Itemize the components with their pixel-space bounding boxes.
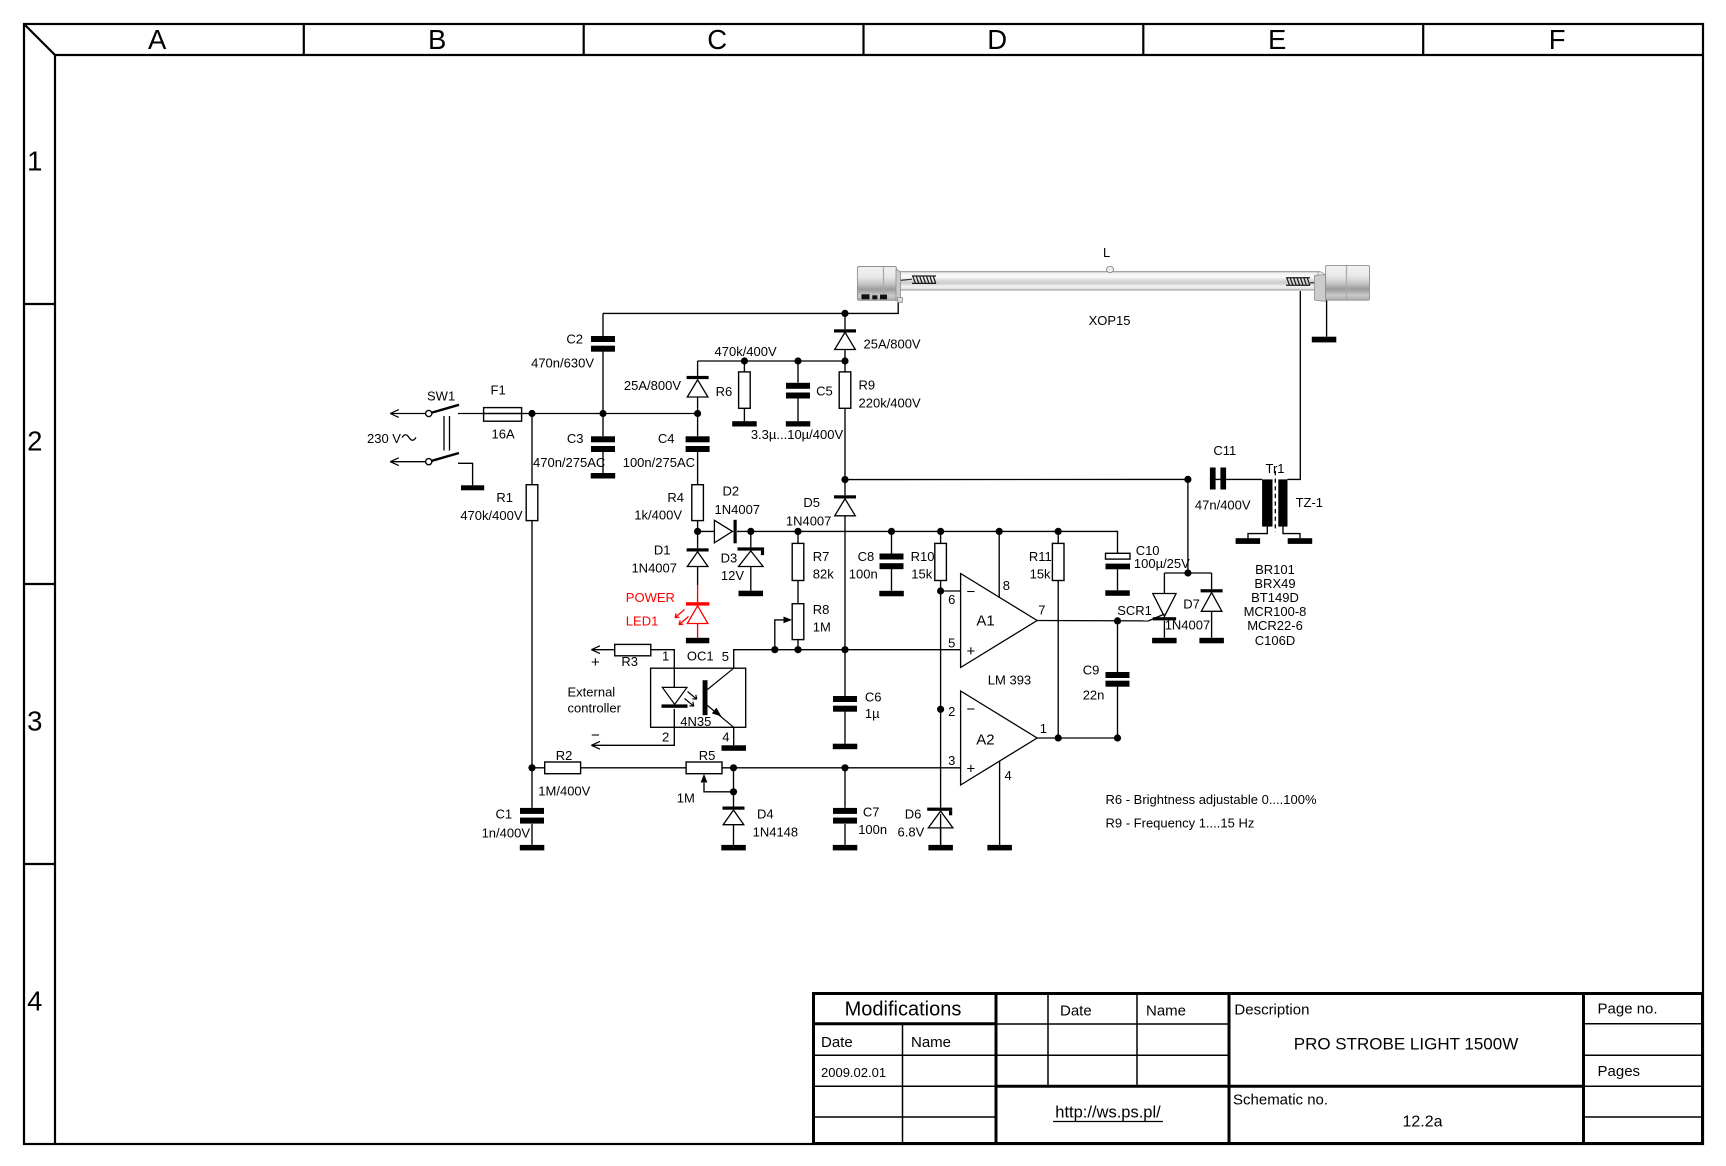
- wire D3 column: [750, 531, 752, 590]
- ground below D4: [721, 845, 746, 851]
- capacitor C5: [786, 383, 810, 399]
- svg-text:Schematic no.: Schematic no.: [1233, 1092, 1328, 1109]
- resistor R11: [1052, 543, 1064, 580]
- node pin1 C9: [1114, 734, 1121, 741]
- resistor R2: [545, 762, 581, 774]
- ground below D6: [928, 845, 953, 851]
- svg-text:R9: R9: [859, 378, 876, 393]
- diode D1: [687, 548, 709, 566]
- node C8 top: [888, 528, 895, 535]
- svg-text:220k/400V: 220k/400V: [859, 396, 921, 411]
- svg-text:LED1: LED1: [626, 614, 659, 629]
- wire R11 column: [1057, 531, 1059, 738]
- node R2 left: [528, 764, 535, 771]
- svg-text:15k: 15k: [1030, 567, 1051, 582]
- svg-text:R8: R8: [813, 602, 830, 617]
- node C11 tee: [1184, 476, 1191, 483]
- svg-text:C6: C6: [865, 690, 882, 705]
- node 470k bus C5: [794, 357, 801, 364]
- ground below C3: [591, 473, 616, 479]
- wire 470k bus: [698, 360, 845, 362]
- capacitor C6: [833, 696, 857, 712]
- svg-text:B: B: [428, 24, 446, 55]
- ground below R6: [732, 421, 757, 426]
- svg-text:−: −: [591, 727, 600, 744]
- ground below D7: [1199, 638, 1224, 644]
- svg-text:1N4148: 1N4148: [753, 825, 799, 840]
- svg-text:4: 4: [27, 986, 42, 1017]
- svg-text:12.2a: 12.2a: [1402, 1114, 1442, 1131]
- svg-text:1N4007: 1N4007: [715, 502, 761, 517]
- wire R6: [743, 361, 745, 421]
- svg-text:C9: C9: [1083, 663, 1100, 678]
- svg-text:BRX49: BRX49: [1254, 576, 1295, 591]
- svg-text:+: +: [967, 761, 976, 778]
- wire R7 R8 column: [797, 531, 799, 649]
- svg-text:D1: D1: [654, 543, 671, 558]
- ground below A2 pin4: [987, 845, 1012, 851]
- svg-text:470n/630V: 470n/630V: [531, 355, 594, 370]
- svg-text:470n/275AC: 470n/275AC: [533, 455, 605, 470]
- wire A1 pin6: [941, 590, 961, 592]
- svg-text:3.3µ...10µ/400V: 3.3µ...10µ/400V: [751, 427, 844, 442]
- svg-text:Tr1: Tr1: [1266, 461, 1285, 476]
- wire OC1 pin4: [733, 727, 735, 745]
- svg-text:+: +: [591, 654, 600, 671]
- node pin8: [996, 528, 1003, 535]
- resistor R10: [935, 543, 947, 580]
- svg-text:D5: D5: [803, 495, 820, 510]
- svg-text:100n/275AC: 100n/275AC: [623, 455, 695, 470]
- wire R8 wiper: [775, 620, 784, 650]
- node R9 bottom D5: [841, 476, 848, 483]
- wire lamp right to Tr1 secondary: [1288, 291, 1301, 479]
- svg-text:3: 3: [27, 706, 42, 737]
- svg-text:R1: R1: [496, 490, 513, 505]
- svg-text:BR101: BR101: [1255, 562, 1295, 577]
- ground below Tr1 primary: [1236, 538, 1261, 544]
- wire D2 anode: [698, 530, 714, 532]
- svg-text:7: 7: [1038, 603, 1045, 618]
- svg-text:1M: 1M: [677, 791, 695, 806]
- svg-text:4: 4: [1005, 768, 1012, 783]
- wire A1 pin7: [1037, 620, 1148, 622]
- label SCR types list: [1244, 562, 1307, 648]
- wire SCR1 / D7 tee: [1164, 573, 1211, 638]
- svg-text:Date: Date: [821, 1034, 853, 1051]
- svg-text:R9 - Frequency 1....15 Hz: R9 - Frequency 1....15 Hz: [1106, 816, 1255, 831]
- svg-text:R10: R10: [911, 549, 935, 564]
- svg-text:82k: 82k: [813, 567, 834, 582]
- LED LED1: [675, 602, 709, 625]
- capacitor C11: [1210, 468, 1226, 490]
- svg-text:R7: R7: [813, 549, 830, 564]
- node lamp left: [841, 310, 848, 317]
- svg-text:470k/400V: 470k/400V: [460, 508, 522, 523]
- resistor R7: [792, 543, 804, 580]
- ground below LED1: [686, 638, 709, 644]
- zener D3: [738, 547, 765, 566]
- wire SW1 pole2 input: [390, 461, 425, 463]
- svg-text:5: 5: [948, 636, 955, 651]
- svg-text:8: 8: [1003, 578, 1010, 593]
- ground below C7: [833, 845, 858, 851]
- svg-text:SW1: SW1: [427, 389, 455, 404]
- node D2-D3: [747, 528, 754, 535]
- svg-text:100µ/25V: 100µ/25V: [1134, 556, 1190, 571]
- svg-text:C4: C4: [658, 431, 675, 446]
- node R10 top: [937, 528, 944, 535]
- wire R1 column: [531, 414, 533, 845]
- wire comparator supply bus: [737, 530, 1058, 532]
- lamp L tube: [857, 265, 1369, 302]
- capacitor C2: [591, 336, 615, 352]
- node R8 wiper: [771, 646, 778, 653]
- svg-text:Page no.: Page no.: [1598, 1001, 1658, 1018]
- capacitor C4: [686, 436, 710, 452]
- OC1 emission arrows: [688, 692, 697, 700]
- ground below lamp right cap: [1312, 337, 1337, 343]
- svg-text:D4: D4: [757, 807, 774, 822]
- svg-text:C7: C7: [863, 805, 880, 820]
- node SCR D7 tee: [1184, 569, 1191, 576]
- svg-text:Modifications: Modifications: [845, 999, 962, 1021]
- wire pin3 bus: [532, 767, 961, 769]
- wire 845 column top: [844, 313, 846, 479]
- column letters: [148, 24, 1566, 55]
- svg-text:R5: R5: [699, 748, 716, 763]
- title block: [814, 994, 1704, 1144]
- svg-text:22n: 22n: [1083, 688, 1105, 703]
- wire R10 column: [940, 531, 942, 845]
- svg-text:A: A: [148, 24, 167, 55]
- node pin6 R10: [937, 587, 944, 594]
- svg-text:12V: 12V: [721, 568, 744, 583]
- svg-text:BT149D: BT149D: [1251, 590, 1299, 605]
- svg-text:LM 393: LM 393: [988, 673, 1031, 688]
- diode 25A/800V right: [834, 329, 856, 349]
- wire Tr1 primary bottom to ground: [1248, 527, 1267, 539]
- svg-text:1M/400V: 1M/400V: [538, 784, 590, 799]
- lamp electrode right: [1310, 282, 1317, 284]
- svg-text:C8: C8: [858, 549, 875, 564]
- svg-text:4: 4: [722, 730, 729, 745]
- ground below SCR1: [1152, 638, 1177, 644]
- svg-text:A1: A1: [976, 613, 994, 630]
- node F1-R1: [528, 410, 535, 417]
- svg-text:Date: Date: [1060, 1003, 1092, 1020]
- svg-text:L: L: [1103, 245, 1110, 260]
- wire C4/R4/D1 column: [697, 414, 699, 586]
- capacitor C9: [1106, 672, 1130, 687]
- node C4-diode: [694, 410, 701, 417]
- svg-text:D6: D6: [905, 807, 922, 822]
- svg-text:470k/400V: 470k/400V: [715, 344, 777, 359]
- svg-text:16A: 16A: [492, 427, 515, 442]
- optocoupler OC1 box: [651, 668, 746, 727]
- node R5 right: [730, 764, 737, 771]
- wire C9: [1117, 621, 1119, 738]
- svg-text:4N35: 4N35: [680, 714, 711, 729]
- ground below OC1 pin4: [722, 745, 747, 751]
- ground below C1: [520, 845, 545, 851]
- lamp cap right: [1315, 274, 1326, 301]
- node C2-C3: [599, 410, 606, 417]
- resistor R5 potentiometer: [686, 762, 722, 774]
- wire D4 column: [733, 768, 735, 845]
- svg-text:MCR22-6: MCR22-6: [1247, 618, 1303, 633]
- wire C7 column: [844, 768, 846, 845]
- external controller minus arrow: [591, 741, 600, 749]
- svg-text:1k/400V: 1k/400V: [634, 508, 682, 523]
- wire lamp right cap to ground: [1326, 300, 1328, 336]
- svg-text:2009.02.01: 2009.02.01: [821, 1065, 886, 1080]
- node pin1 R11: [1055, 734, 1062, 741]
- svg-text:100n: 100n: [849, 567, 878, 582]
- svg-text:25A/800V: 25A/800V: [864, 337, 921, 352]
- svg-text:C5: C5: [816, 384, 833, 399]
- wire A2 pin4: [999, 761, 1001, 845]
- svg-text:C1: C1: [495, 807, 512, 822]
- SCR1 thyristor: [1153, 594, 1176, 621]
- wire SW1 pole2 to ground: [458, 463, 473, 485]
- svg-text:D7: D7: [1183, 597, 1200, 612]
- svg-text:Name: Name: [911, 1034, 951, 1051]
- external controller plus arrow: [591, 646, 600, 654]
- svg-text:R11: R11: [1029, 549, 1052, 564]
- wire C5: [797, 361, 799, 421]
- node R11 top: [1055, 528, 1062, 535]
- diode 25A/800V left: [687, 376, 709, 397]
- svg-text:OC1: OC1: [687, 649, 714, 664]
- OC1 phototransistor: [703, 680, 708, 715]
- wire y479 row to C11: [845, 479, 1226, 573]
- svg-text:MCR100-8: MCR100-8: [1244, 604, 1307, 619]
- wire 25A diode left column: [697, 361, 699, 414]
- node R7 top: [794, 528, 801, 535]
- node pin7 C9: [1114, 617, 1121, 624]
- node 470k bus R6: [741, 357, 748, 364]
- svg-text:R6: R6: [716, 384, 733, 399]
- fuse F1: [484, 408, 522, 422]
- capacitor C8: [880, 554, 904, 570]
- svg-text:1: 1: [662, 649, 669, 664]
- svg-text:C106D: C106D: [1255, 633, 1295, 648]
- svg-text:D2: D2: [723, 484, 740, 499]
- svg-text:Name: Name: [1146, 1003, 1186, 1020]
- svg-text:6.8V: 6.8V: [898, 825, 925, 840]
- svg-text:2: 2: [27, 426, 42, 457]
- node pin2 D6: [937, 706, 944, 713]
- op-amp A2: [961, 691, 1038, 785]
- svg-text:1N4007: 1N4007: [631, 561, 677, 576]
- svg-text:C2: C2: [566, 332, 583, 347]
- svg-text:D: D: [987, 24, 1007, 55]
- resistor R9: [839, 372, 851, 408]
- svg-text:1µ: 1µ: [865, 706, 880, 721]
- svg-text:1n/400V: 1n/400V: [482, 826, 531, 841]
- resistor R4: [692, 485, 704, 521]
- node R4-D2-D1: [694, 528, 701, 535]
- wire C8: [891, 531, 893, 590]
- capacitor C10 electrolytic: [1106, 553, 1131, 569]
- diode D2: [714, 520, 736, 544]
- op-amp A1: [961, 574, 1038, 668]
- wire D5 column: [844, 480, 846, 744]
- svg-text:R2: R2: [556, 748, 573, 763]
- svg-text:F1: F1: [491, 383, 506, 398]
- wire OC1 pin2 minus lead: [591, 709, 674, 745]
- svg-text:3: 3: [948, 753, 955, 768]
- svg-text:2: 2: [662, 730, 669, 745]
- svg-text:A2: A2: [976, 732, 994, 749]
- ground below C8: [879, 591, 904, 597]
- svg-text:F: F: [1549, 24, 1566, 55]
- svg-text:1N4007: 1N4007: [786, 514, 832, 529]
- diode D7: [1201, 589, 1223, 611]
- svg-text:R6 - Brightness adjustable 0..: R6 - Brightness adjustable 0....100%: [1106, 792, 1317, 807]
- lamp cap left: [857, 267, 896, 301]
- node 470k bus R9: [841, 357, 848, 364]
- ground below C10: [1105, 590, 1130, 596]
- svg-text:+: +: [967, 643, 976, 660]
- wire pin5 bus: [734, 650, 961, 669]
- OC1 internal LED: [662, 687, 687, 704]
- resistor R1: [526, 485, 538, 521]
- wire SW1 pole1 input: [390, 413, 425, 415]
- svg-text:1: 1: [27, 146, 42, 177]
- svg-text:100n: 100n: [858, 822, 887, 837]
- ground below C6: [833, 744, 858, 750]
- ground below D3: [739, 591, 764, 597]
- svg-text:controller: controller: [568, 701, 622, 716]
- svg-text:R4: R4: [667, 490, 684, 505]
- wire Tr1 secondary bottom to ground: [1283, 527, 1300, 539]
- wire LED1 red leads: [697, 585, 699, 638]
- lamp electrode left: [899, 279, 912, 280]
- svg-text:R3: R3: [621, 654, 638, 669]
- svg-text:1M: 1M: [813, 620, 831, 635]
- zener D6: [927, 808, 953, 845]
- transformer Tr1: [1262, 471, 1287, 532]
- diode D4: [723, 807, 745, 825]
- svg-text:−: −: [967, 583, 976, 600]
- svg-text:http://ws.ps.pl/: http://ws.ps.pl/: [1055, 1104, 1161, 1122]
- svg-text:POWER: POWER: [626, 590, 675, 605]
- resistor R6: [739, 372, 751, 408]
- svg-text:−: −: [967, 701, 976, 718]
- node C7 top: [841, 764, 848, 771]
- svg-text:25A/800V: 25A/800V: [624, 378, 681, 393]
- row numbers: [27, 146, 42, 1017]
- wire C11 to Tr1: [1226, 478, 1262, 480]
- wire top bus to lamp: [603, 300, 898, 314]
- svg-text:SCR1: SCR1: [1117, 603, 1152, 618]
- svg-text:PRO STROBE LIGHT 1500W: PRO STROBE LIGHT 1500W: [1294, 1035, 1519, 1054]
- capacitor C3: [591, 436, 615, 452]
- wire A1 pin8: [998, 531, 1000, 598]
- switch SW1: [390, 405, 459, 466]
- wire bus to C10: [1058, 531, 1117, 590]
- node C6 D5: [841, 646, 848, 653]
- resistor R3: [615, 644, 651, 655]
- svg-text:1: 1: [1040, 721, 1047, 736]
- node R8 bottom: [794, 646, 801, 653]
- svg-text:15k: 15k: [911, 567, 932, 582]
- svg-text:C3: C3: [567, 431, 584, 446]
- svg-text:230 V: 230 V: [367, 431, 401, 446]
- svg-text:1N4007: 1N4007: [1165, 618, 1211, 633]
- svg-text:Description: Description: [1234, 1002, 1309, 1019]
- potentiometer R8: [792, 604, 804, 640]
- wire R5 wiper: [704, 783, 734, 792]
- svg-text:TZ-1: TZ-1: [1296, 495, 1323, 510]
- ground below SW1: [461, 485, 484, 490]
- svg-text:XOP15: XOP15: [1089, 313, 1131, 328]
- svg-text:5: 5: [722, 649, 729, 664]
- wire main AC bus: [458, 413, 484, 415]
- wire SCR1 gate: [1149, 614, 1165, 621]
- capacitor C7: [833, 808, 857, 824]
- svg-text:D3: D3: [721, 551, 738, 566]
- svg-text:External: External: [568, 685, 616, 700]
- ground below C5: [786, 421, 811, 426]
- svg-text:47n/400V: 47n/400V: [1195, 498, 1251, 513]
- svg-text:Pages: Pages: [1598, 1063, 1641, 1080]
- wire C2 column: [602, 313, 604, 473]
- svg-text:C: C: [707, 24, 727, 55]
- svg-text:E: E: [1268, 24, 1286, 55]
- wire A2 pin1: [1037, 737, 1117, 739]
- wire R3 row: [591, 650, 674, 688]
- ground below Tr1 secondary: [1288, 538, 1313, 544]
- diode D5: [834, 495, 856, 516]
- svg-text:C11: C11: [1213, 443, 1236, 458]
- svg-text:6: 6: [948, 592, 955, 607]
- svg-text:2: 2: [948, 704, 955, 719]
- capacitor C1: [520, 808, 544, 824]
- node R5 wiper D4: [730, 788, 737, 795]
